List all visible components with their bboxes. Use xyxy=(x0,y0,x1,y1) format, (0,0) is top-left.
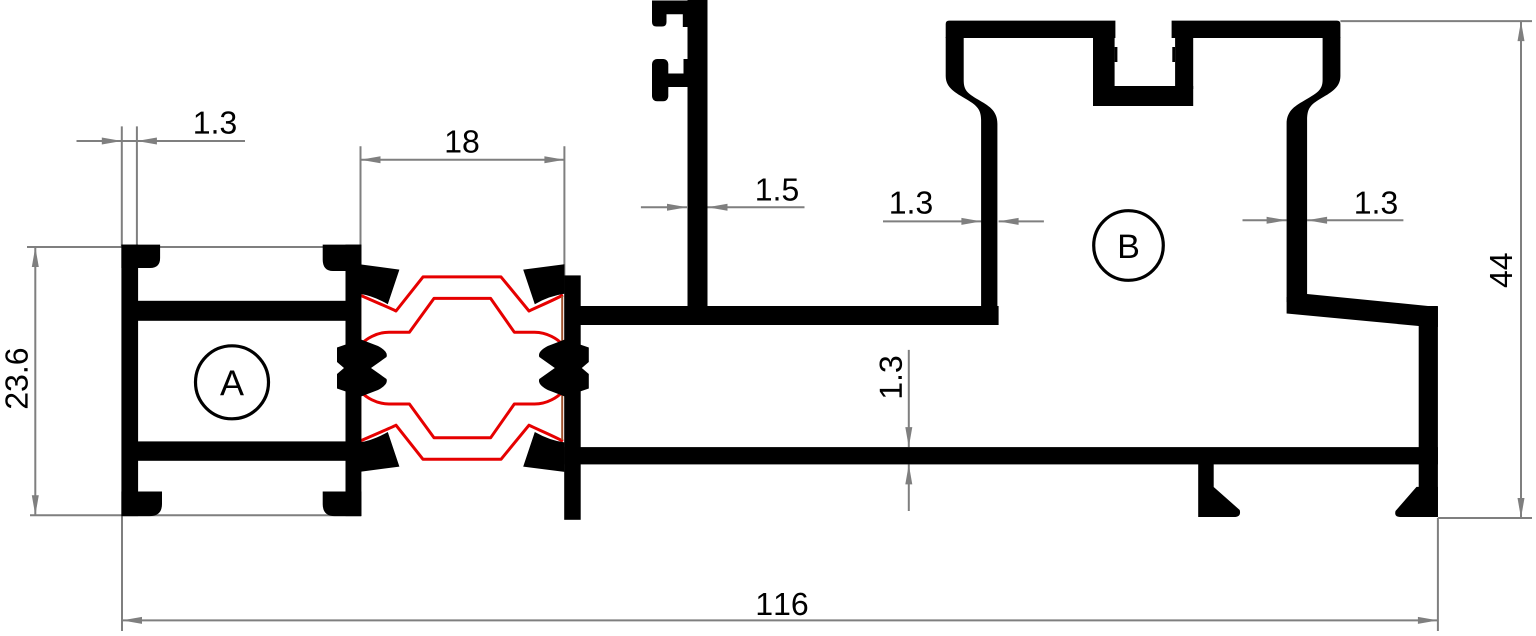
text 1.5 xyxy=(757,178,798,200)
dimension 44 dim line xyxy=(1520,21,1522,518)
thermal break clamp wedges (black) xyxy=(337,264,589,472)
clamp bowtie right xyxy=(539,340,589,397)
arrows 23.6 xyxy=(32,247,39,267)
clamp wedge bottom-right xyxy=(523,432,564,472)
dimension 1.3 B-right dim line xyxy=(1243,219,1287,221)
profile A bottom-right foot xyxy=(323,492,362,517)
dimension 23.6 ext lines xyxy=(27,246,361,248)
dimension 1.3 top-left dim line xyxy=(77,140,246,142)
dimension texts (vector glyphs, Liberation Sans) xyxy=(5,111,1512,615)
bottom strip inner contour xyxy=(362,392,563,438)
clamp wedge bottom-left xyxy=(359,432,399,472)
top web xyxy=(566,306,999,325)
label circle A xyxy=(196,346,269,419)
middle sash profile (black) xyxy=(564,0,1438,520)
arrows 1.3 B-left xyxy=(961,218,981,225)
text 116 xyxy=(758,593,808,616)
glazing-bead bar xyxy=(688,0,708,310)
dimension 18 dim line xyxy=(361,159,565,161)
text 1.3 middle rotated xyxy=(879,357,902,398)
arrows 1.5 xyxy=(667,204,687,211)
profile B (black) xyxy=(946,21,1438,517)
arrows 18 xyxy=(361,156,381,163)
top strip outer contour xyxy=(360,277,563,311)
lower web xyxy=(564,447,1438,464)
dimension 1.5 dim line xyxy=(641,206,687,208)
B screw channel left wall xyxy=(1093,37,1115,89)
profile A bottom-left foot xyxy=(121,492,162,517)
B screw channel right wall xyxy=(1175,37,1193,89)
bar hook blob xyxy=(652,59,668,101)
strip end edges (dark) xyxy=(360,296,562,440)
text 23.6 rotated xyxy=(5,349,28,408)
dimension 23.6 dim line xyxy=(34,247,36,515)
dimension 18 ext lines xyxy=(360,146,362,293)
bar hook arm xyxy=(668,74,688,88)
bar top cap xyxy=(652,1,708,15)
profile A top-right hook xyxy=(323,245,362,271)
B top cap right part xyxy=(1172,21,1341,38)
profile A top-left hook xyxy=(121,245,160,268)
dimension 1.3 B-left dim line xyxy=(883,220,981,222)
text 1.3 B-left xyxy=(891,191,932,214)
B screw channel floor xyxy=(1093,86,1193,106)
arrows 1.3 B-right xyxy=(1267,217,1287,224)
arrows 116 xyxy=(122,617,142,624)
bar cap lip xyxy=(683,1,688,28)
top strip inner contour xyxy=(362,298,563,344)
B top cap left part xyxy=(946,21,1116,38)
arrows 44 xyxy=(1518,21,1525,41)
thermal break polyamide strips (red) xyxy=(360,277,563,459)
B right wall top with S-curve neck xyxy=(1287,37,1341,302)
profile A (black) xyxy=(121,245,361,516)
B bottom-right foot xyxy=(1395,487,1438,517)
profile A lower web xyxy=(130,441,352,460)
text 1.3 top-left xyxy=(195,111,236,134)
arrows 1.3 top-left xyxy=(102,138,122,145)
B slanted ledge xyxy=(1287,294,1438,327)
text 1.3 B-right xyxy=(1356,191,1397,214)
dimension 1.3 top-left ext lines xyxy=(121,126,123,246)
bottom strip outer contour xyxy=(360,425,563,459)
dimension 1.3 middle dim lines xyxy=(908,350,910,447)
B right wall lower xyxy=(1419,306,1438,517)
bar hook lip xyxy=(684,59,689,87)
profile A middle web xyxy=(130,301,352,321)
dimension 116 ext lines xyxy=(121,516,123,632)
profile A left wall xyxy=(121,245,138,516)
arrows 1.3 middle xyxy=(905,427,912,447)
clamp bowtie left xyxy=(337,340,387,397)
dimension 44 ext lines xyxy=(1340,20,1532,22)
text 18 xyxy=(447,130,479,153)
middle wall xyxy=(564,275,581,519)
profile A right wall xyxy=(346,245,362,516)
text 44 rotated xyxy=(1490,253,1512,287)
dimension 116 dim line xyxy=(122,619,1438,621)
B middle foot xyxy=(1198,464,1240,517)
clamp wedge top-left xyxy=(359,264,399,304)
clamp wedge top-right xyxy=(523,264,564,304)
B screw channel right tooth xyxy=(1172,47,1175,62)
B left wall with S-curve neck xyxy=(946,37,998,325)
B screw channel left tooth xyxy=(1115,47,1118,62)
label circle B xyxy=(1094,211,1164,281)
bar cap left leg xyxy=(652,1,667,27)
